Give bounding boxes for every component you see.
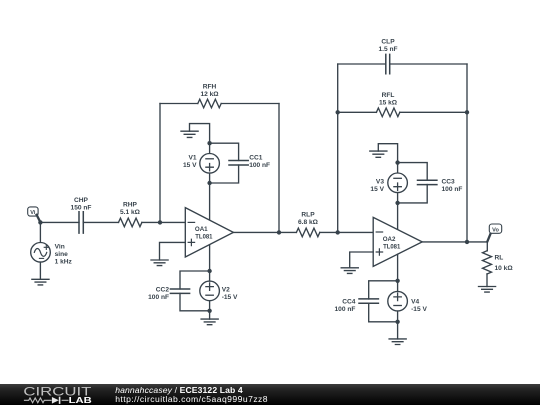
wire: input node to CHP (40, 221, 79, 223)
svg-text:100 nF: 100 nF (335, 306, 356, 313)
ground: above V3 (370, 144, 398, 163)
svg-text:100 nF: 100 nF (249, 162, 270, 169)
wire: V- pin OA2 (397, 254, 399, 281)
svg-text:-15 V: -15 V (222, 294, 238, 301)
op-amp OA2 (373, 217, 422, 266)
wire: V- pin OA1 (209, 245, 211, 271)
svg-text:OA2: OA2 (383, 236, 396, 243)
svg-text:-15 V: -15 V (411, 306, 427, 313)
wire: OA1 non-inverting input (160, 242, 186, 260)
wire: CLP left lead (338, 63, 386, 65)
svg-text:10 kΩ: 10 kΩ (495, 265, 514, 272)
capacitor CLP (378, 39, 397, 74)
svg-text:100 nF: 100 nF (148, 294, 169, 301)
wire: RLP to OA2 inverting input (320, 231, 373, 233)
junction: V1 bottom (207, 181, 211, 185)
resistor RFH (198, 83, 221, 107)
svg-text:TL081: TL081 (195, 233, 213, 240)
svg-text:V2: V2 (222, 286, 230, 293)
voltage source V4 (388, 281, 428, 322)
ground: OA2 plus input (341, 268, 358, 274)
resistor RHP (119, 201, 142, 226)
wire: RFL left lead (338, 111, 377, 113)
resistor RL (483, 242, 514, 287)
footer credit text (115, 386, 268, 404)
junction: V3 bottom (395, 201, 399, 205)
junction: V2 top (207, 269, 211, 273)
wire: OA1 output to RLP (233, 231, 296, 233)
node Vo label box (489, 224, 501, 233)
ground: below V2 (201, 311, 218, 325)
voltage source Vin (sine) (31, 222, 73, 279)
wire: stage2 right vertical (466, 64, 468, 242)
wire: vertical to RFH left (159, 104, 161, 223)
wire: V+ pin OA2 (397, 203, 399, 230)
resistor RLP (296, 212, 319, 237)
wire: RFL right lead (400, 111, 467, 113)
svg-text:CC4: CC4 (342, 298, 356, 305)
junction: input node (38, 220, 42, 224)
junction: RFL right (465, 110, 469, 114)
svg-text:Vin: Vin (55, 244, 65, 251)
junction: V3 top (395, 160, 399, 164)
svg-text:CC2: CC2 (156, 286, 170, 293)
capacitor CC1 (210, 143, 270, 183)
wire: Vo label stub (487, 234, 490, 241)
junction: V1 top (207, 141, 211, 145)
node Vi label box (28, 207, 38, 216)
junction: RFL left (336, 110, 340, 114)
wire: CLP right lead (390, 63, 467, 65)
svg-text:100 nF: 100 nF (442, 186, 463, 193)
svg-text:CHP: CHP (74, 197, 89, 204)
svg-text:5.1 kΩ: 5.1 kΩ (120, 209, 141, 216)
svg-text:Vi: Vi (30, 210, 36, 216)
junction: output node (465, 240, 469, 244)
wire: RFH left lead (160, 103, 198, 105)
svg-text:sine: sine (55, 251, 69, 258)
junction: feedback tap at OA1 input (158, 220, 162, 224)
svg-text:TL081: TL081 (383, 243, 401, 250)
wire: RFH right lead (221, 103, 279, 105)
capacitor CHP (71, 197, 92, 233)
ground: below Vin (32, 279, 49, 285)
CircuitLab logo (23, 383, 103, 405)
wire: V+ pin OA1 (209, 183, 211, 220)
wire: Vi label stub (37, 215, 41, 223)
junction: V2 bottom (207, 309, 211, 313)
svg-text:1 kHz: 1 kHz (55, 259, 73, 266)
svg-text:6.8 kΩ: 6.8 kΩ (298, 219, 319, 226)
svg-text:150 nF: 150 nF (71, 204, 92, 211)
svg-text:OA1: OA1 (195, 226, 208, 233)
wire: OA2 output (422, 241, 487, 243)
svg-text:RLP: RLP (301, 212, 315, 219)
ground: above V1 (181, 124, 210, 144)
svg-text:RL: RL (495, 254, 504, 261)
op-amp OA1 (185, 208, 233, 257)
svg-text:15 V: 15 V (183, 162, 197, 169)
wire: RHP to OA1 inverting input (142, 221, 185, 223)
resistor RFL (376, 92, 399, 117)
voltage source V2 (200, 271, 238, 311)
ground: below RL (479, 287, 496, 293)
capacitor CC4 (335, 281, 398, 322)
svg-text:15 V: 15 V (370, 186, 384, 193)
capacitor CC2 (148, 271, 209, 311)
voltage source V3 (370, 163, 407, 203)
svg-text:Vo: Vo (492, 227, 499, 233)
svg-text:V3: V3 (376, 178, 384, 185)
wire: OA2 non-inverting input (350, 252, 374, 268)
svg-text:CC1: CC1 (249, 155, 263, 162)
svg-text:CLP: CLP (381, 39, 395, 46)
svg-text:V4: V4 (411, 298, 419, 305)
wire: CHP to RHP (83, 221, 118, 223)
svg-text:RHP: RHP (123, 201, 138, 208)
junction: V4 bottom (395, 320, 399, 324)
svg-text:LAB: LAB (69, 396, 92, 405)
junction: V4 top (395, 279, 399, 283)
junction: stage2 feedback tap (336, 230, 340, 234)
footer bar (0, 384, 540, 406)
junction: OA1 output feedback (277, 230, 281, 234)
capacitor CC3 (398, 163, 463, 203)
svg-text:12 kΩ: 12 kΩ (200, 91, 219, 98)
wire: stage2 left vertical (337, 64, 339, 232)
svg-text:1.5 nF: 1.5 nF (378, 46, 397, 53)
svg-text:RFH: RFH (203, 83, 217, 90)
ground: OA1 plus input (151, 260, 168, 266)
voltage source V1 (183, 143, 219, 183)
svg-text:CC3: CC3 (442, 178, 456, 185)
svg-text:15 kΩ: 15 kΩ (379, 99, 398, 106)
svg-text:V1: V1 (189, 155, 197, 162)
wire: vertical RFH right to OA1 output (278, 104, 280, 233)
svg-text:RFL: RFL (382, 92, 395, 99)
ground: below V4 (389, 322, 406, 345)
